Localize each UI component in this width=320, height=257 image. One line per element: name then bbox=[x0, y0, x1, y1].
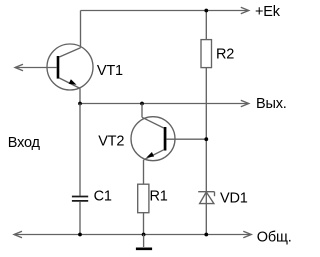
wire: bottom common rail bbox=[14, 234, 251, 236]
svg-text:VT1: VT1 bbox=[97, 63, 123, 79]
wire: VT1 base lead bbox=[15, 67, 57, 69]
wire: output line Вых bbox=[80, 103, 248, 105]
diode VD1 (zener) bbox=[198, 192, 214, 204]
svg-text:Вход: Вход bbox=[8, 135, 41, 151]
resistor R1 bbox=[138, 184, 149, 213]
wire: R2 top lead bbox=[205, 11, 207, 40]
node: C1 on bottom rail bbox=[78, 233, 82, 237]
wire: VT1 collector lead bbox=[80, 11, 82, 48]
wire: C1 top lead bbox=[79, 104, 81, 196]
node: VT1 emitter junction bbox=[78, 102, 82, 106]
wire: +Ek top rail bbox=[81, 10, 249, 12]
terminal arrow bottom left bbox=[14, 231, 22, 238]
wire: VT2 base lead bbox=[166, 138, 206, 140]
transistor VT1 bbox=[47, 44, 93, 90]
node: VT2 base / R2-VD1 junction bbox=[204, 137, 208, 141]
terminal arrow Общ bbox=[243, 231, 251, 238]
svg-text:Общ.: Общ. bbox=[257, 229, 292, 245]
svg-text:+Ek: +Ek bbox=[255, 4, 281, 20]
node: R2 tap on +Ek rail bbox=[204, 9, 208, 13]
terminal arrow Вых bbox=[241, 100, 249, 107]
svg-text:R1: R1 bbox=[150, 189, 168, 205]
svg-text:R2: R2 bbox=[216, 47, 234, 63]
svg-text:VD1: VD1 bbox=[220, 191, 248, 207]
svg-text:VT2: VT2 bbox=[98, 134, 124, 150]
capacitor C1 bbox=[72, 197, 88, 201]
wire: VT2 emitter lead bbox=[143, 160, 145, 184]
node: R1/ground on bottom rail bbox=[142, 233, 146, 237]
wire: C1 bottom lead bbox=[79, 202, 81, 235]
terminal arrow +Ek bbox=[241, 7, 249, 14]
node: VT2 collector junction bbox=[140, 102, 144, 106]
wire: VT1 emitter lead bbox=[79, 88, 81, 103]
svg-text:Вых.: Вых. bbox=[256, 96, 287, 112]
ground bbox=[136, 235, 152, 249]
svg-text:C1: C1 bbox=[94, 189, 112, 205]
node: VD1 on bottom rail bbox=[204, 233, 208, 237]
transistor VT2 bbox=[131, 117, 175, 161]
wire: R2 bottom to VD1 and ground bbox=[205, 68, 207, 235]
terminal arrow input left bbox=[15, 64, 23, 71]
resistor R2 bbox=[201, 40, 212, 68]
wire: R1 bottom lead bbox=[143, 213, 145, 235]
wire: VT2 collector lead bbox=[141, 104, 143, 118]
